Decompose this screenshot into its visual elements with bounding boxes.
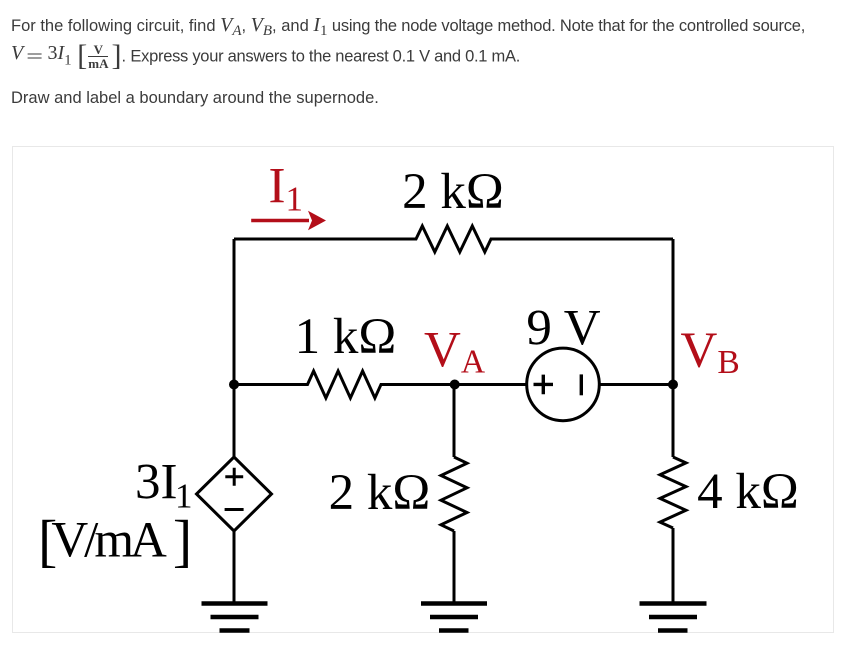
svg-text:1 kΩ: 1 kΩ	[295, 309, 397, 365]
svg-text:2 kΩ: 2 kΩ	[329, 465, 431, 521]
svg-text:3I1: 3I1	[135, 455, 192, 516]
svg-text:2 kΩ: 2 kΩ	[402, 164, 504, 220]
svg-text:VB: VB	[681, 323, 740, 381]
svg-text:VA: VA	[424, 322, 485, 380]
svg-text:[V/mA]: [V/mA]	[38, 508, 192, 573]
svg-text:I1: I1	[269, 159, 303, 219]
svg-text:4 kΩ: 4 kΩ	[697, 464, 799, 520]
svg-text:9 V: 9 V	[526, 301, 600, 357]
